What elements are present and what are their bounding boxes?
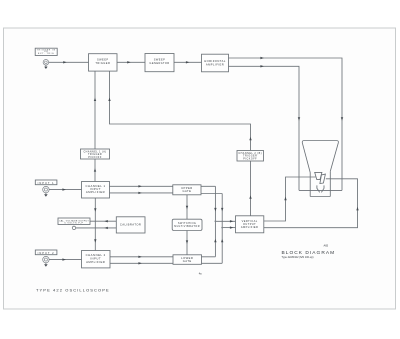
svg-text:PICKOFF: PICKOFF (243, 157, 257, 160)
wire: ch1 amp down to ch2 amp (94, 198, 96, 251)
box channel 1 input amplifier (82, 182, 110, 199)
svg-text:CALIBRATOR: CALIBRATOR (120, 223, 141, 227)
box horizontal amplifier (202, 54, 229, 72)
wire: ch2 trigger pickoff up and left to sweep trigger (108, 71, 251, 150)
box switching multivibrator (172, 219, 202, 230)
box input 2 label (35, 250, 57, 255)
box ext trigger input label (35, 48, 57, 55)
wire: bus A to vertical output amplifier (215, 220, 236, 222)
box sweep generator (145, 54, 174, 72)
svg-text:TYPE 422 OSCILLOSCOPE: TYPE 422 OSCILLOSCOPE (36, 288, 110, 293)
box channel 2 trigger pickoff (237, 151, 264, 162)
box input 1 label (35, 180, 57, 185)
connector J3 cal output (72, 226, 75, 229)
svg-text:INPUT 2: INPUT 2 (38, 251, 55, 255)
CRT deflection plate right (320, 174, 326, 183)
wire: upper gate down to switching multivibrator (186, 195, 188, 219)
wire: calibrator to cal label box (90, 220, 116, 222)
CRT deflection plate left (315, 172, 322, 179)
box sweep trigger (89, 54, 118, 71)
box cal voltage output label (58, 218, 90, 225)
connector J2 input 1 (43, 186, 49, 196)
wire: ch2 amp to lower gate (pair) (110, 256, 173, 258)
wire: ch1 amp up to ch1 trigger pickoff (94, 159, 96, 182)
CRT funnel (302, 141, 338, 173)
box upper gate (173, 185, 201, 195)
wire: vert amp up to ch2 trigger pickoff (249, 161, 251, 216)
svg-text:GENERATOR: GENERATOR (149, 61, 169, 65)
box channel 1 trigger pickoff (81, 149, 110, 159)
wire: input 2 to channel 2 amplifier (49, 258, 81, 260)
svg-text:AMPLIFIER: AMPLIFIER (86, 190, 105, 194)
svg-text:AMPLIFIER: AMPLIFIER (241, 225, 259, 229)
wire: input 1 to channel 1 amplifier (49, 188, 81, 190)
svg-text:SWEEP: SWEEP (154, 58, 166, 62)
svg-text:GATE: GATE (183, 259, 192, 263)
wire: ch1 trigger pickoff up to sweep trigger (94, 71, 96, 149)
wire: vert amp upper output to CRT left plate (264, 177, 316, 221)
svg-text:5 VOLTS P-P: 5 VOLTS P-P (64, 223, 83, 225)
box lower gate (173, 255, 202, 264)
svg-text:INPUT 1: INPUT 1 (38, 181, 55, 185)
wire: bus B to vertical output amplifier (221, 226, 235, 228)
connector J1 ext trigger input (43, 60, 49, 70)
wire: gates outputs bus vertical B (201, 194, 223, 264)
svg-text:EXT. TRIG: EXT. TRIG (38, 53, 54, 55)
CRT heater (317, 185, 324, 192)
wire: sweep generator to horizontal amplifier (174, 61, 202, 63)
CRT neck (310, 171, 330, 196)
wire: horizontal deflection bottom link (299, 189, 342, 191)
wire: vert amp lower output to CRT right plate (264, 179, 359, 228)
box vertical output amplifier (236, 216, 264, 233)
wire: sweep trigger to sweep generator (117, 61, 145, 63)
svg-text:Type 422/R422 (S/N 100-up): Type 422/R422 (S/N 100-up) (282, 256, 314, 259)
svg-text:MULTIVIBRATOR: MULTIVIBRATOR (174, 225, 200, 228)
connector J4 input 2 (43, 256, 49, 266)
wire: calibrator to cal connector (76, 227, 117, 229)
wire: horizontal amplifier lower output to CRT deflection left (229, 65, 301, 190)
svg-text:AMPLIFIER: AMPLIFIER (206, 62, 224, 66)
wire: ext trig connector to sweep trigger (49, 61, 89, 63)
svg-text:GATE: GATE (182, 189, 191, 193)
wire: horizontal amplifier upper output to CRT deflection right (229, 57, 344, 191)
wire: ch1 amp to upper gate (pair) (110, 185, 173, 187)
svg-text:A65: A65 (324, 244, 329, 248)
wire: gates outputs bus vertical A (201, 186, 217, 256)
svg-text:TRIGGER: TRIGGER (95, 61, 110, 65)
svg-text:AMPLIFIER: AMPLIFIER (86, 260, 105, 264)
box channel 2 input amplifier (82, 251, 111, 268)
wire: switching multivibrator down to lower gate (186, 231, 188, 255)
svg-text:PICKOFF: PICKOFF (88, 156, 102, 159)
box calibrator (116, 217, 145, 233)
